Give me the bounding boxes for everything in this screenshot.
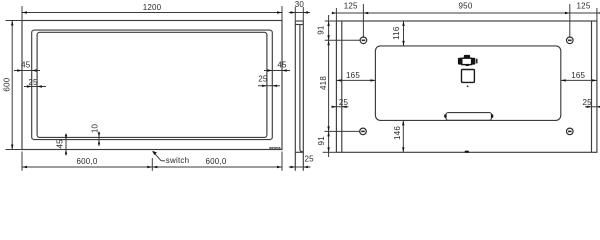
svg-text:25: 25 [258, 74, 268, 83]
dim 45 bottom (vertical) [55, 134, 67, 156]
back panel outline [336, 21, 597, 152]
svg-text:125: 125 [577, 2, 591, 11]
switch leader and label [152, 151, 189, 165]
dim 45 left [14, 61, 40, 72]
svg-text:25: 25 [28, 78, 38, 87]
svg-text:25: 25 [339, 98, 349, 107]
svg-text:45: 45 [277, 61, 287, 70]
svg-text:25: 25 [583, 98, 593, 107]
dim 25 bottom of side view [289, 155, 314, 169]
frosted band outer rect (45mm inset) [32, 30, 273, 140]
dim 146 [393, 120, 405, 152]
svg-text:146: 146 [393, 126, 402, 140]
junction box icon [458, 55, 478, 66]
svg-text:25: 25 [305, 155, 315, 164]
svg-text:1200: 1200 [143, 3, 162, 12]
hole reference line bottom-left [325, 130, 364, 132]
svg-text:91: 91 [316, 25, 325, 35]
mounting hole top-right [567, 37, 574, 44]
dim 25 right [258, 74, 280, 87]
dim 165 left [336, 71, 375, 82]
dim 600,0 / 600,0 bottom row [22, 152, 282, 171]
dim 1200 top [22, 3, 282, 21]
mirror outer outline [22, 21, 282, 150]
dim 91 bottom-left [317, 131, 337, 157]
svg-text:600,0: 600,0 [76, 157, 97, 166]
dim 25 left [24, 78, 46, 88]
svg-text:45: 45 [55, 139, 64, 149]
dim 116 [392, 21, 405, 46]
handle at recess bottom [444, 113, 493, 121]
recess rounded rectangle [375, 46, 560, 121]
svg-text:950: 950 [459, 2, 473, 11]
svg-text:30: 30 [295, 0, 305, 9]
svg-text:165: 165 [571, 71, 585, 80]
back box inner line [300, 25, 303, 152]
svg-text:45: 45 [21, 61, 31, 70]
svg-text:600,0: 600,0 [205, 157, 226, 166]
back panel side walls [341, 21, 343, 152]
side profile outline [295, 21, 303, 171]
svg-text:switch: switch [166, 156, 189, 165]
dim 45 right [264, 61, 290, 72]
svg-text:418: 418 [319, 76, 328, 90]
bottom cable notch [465, 151, 469, 153]
dim 10 bottom (vertical) [90, 124, 100, 146]
dim 600 left [2, 21, 22, 150]
cable outlet square [462, 70, 475, 83]
frosted band inner rect [37, 32, 267, 137]
hole reference line top-left [325, 39, 364, 41]
dim row 125 / 950 / 125 top [332, 2, 600, 21]
svg-text:91: 91 [317, 136, 326, 146]
svg-text:165: 165 [346, 71, 360, 80]
mounting hole bottom-right [567, 128, 574, 135]
center mark dot [467, 85, 469, 87]
dim 25 right wall [583, 98, 600, 108]
svg-text:600: 600 [2, 77, 11, 91]
svg-text:10: 10 [90, 124, 99, 134]
mounting hole top-left [360, 37, 367, 44]
svg-text:werma: werma [268, 146, 281, 150]
dim 30 top [289, 0, 310, 21]
extension line into top-left hole [362, 4, 364, 40]
dim 91 top-left [316, 15, 336, 40]
extension line into top-right hole [569, 4, 571, 40]
mounting hole bottom-left [360, 128, 367, 135]
svg-text:116: 116 [392, 26, 401, 40]
svg-text:125: 125 [344, 2, 358, 11]
dim 165 right [561, 71, 597, 82]
glass back line [295, 24, 303, 26]
dim 418 left [319, 40, 330, 131]
dim 25 left wall [332, 98, 349, 108]
